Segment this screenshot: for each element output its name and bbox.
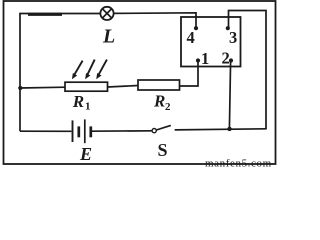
svg-text:1: 1 [201, 49, 209, 68]
resistor R2 [138, 80, 180, 113]
svg-text:L: L [102, 26, 115, 48]
svg-text:R: R [72, 92, 84, 111]
terminal 3 [226, 26, 238, 47]
resistor R1 (photoresistor) [65, 82, 108, 112]
wire top left [19, 13, 100, 15]
battery E [73, 119, 93, 164]
wire left vertical [19, 14, 21, 132]
wire bottom left to battery [20, 130, 71, 132]
junction node left [18, 86, 22, 90]
wire terminal 1 to R2 [180, 61, 199, 87]
svg-text:3: 3 [229, 28, 237, 47]
wire (thick retrace segment) [28, 13, 62, 16]
terminal 4 [187, 26, 199, 47]
svg-text:4: 4 [187, 28, 195, 47]
switch S [152, 125, 171, 160]
svg-text:S: S [158, 140, 168, 160]
black box [181, 17, 241, 67]
wire battery to switch [92, 130, 152, 132]
svg-text:E: E [79, 144, 92, 164]
svg-text:R: R [153, 92, 165, 111]
svg-text:2: 2 [222, 48, 230, 67]
light arrow 3 [96, 60, 107, 80]
junction node bottom right [227, 127, 231, 131]
terminal 2 [222, 48, 234, 67]
wire R1 to R2 [108, 86, 139, 88]
wire terminal 2 down [229, 61, 230, 130]
light arrow 1 [72, 61, 83, 80]
wire left to R1 [20, 86, 65, 89]
wire top right to box [114, 13, 196, 28]
lamp L [100, 7, 115, 48]
wire terminal 3 to right rail [229, 11, 267, 130]
svg-text:1: 1 [85, 101, 91, 113]
svg-text:2: 2 [165, 101, 171, 113]
svg-text:manfen5.com: manfen5.com [205, 158, 272, 168]
wire switch to right rail [175, 129, 267, 130]
light arrow 2 [85, 60, 95, 80]
terminal 1 [196, 49, 209, 68]
